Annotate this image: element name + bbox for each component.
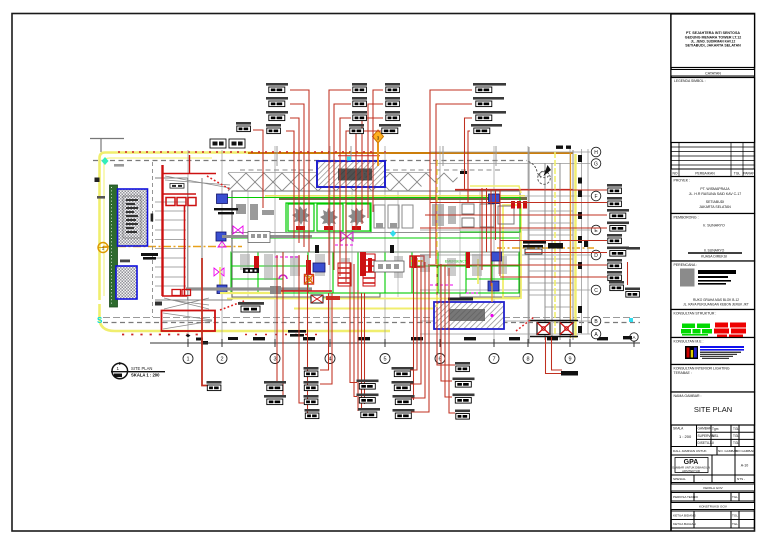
svg-text:KONSTRUKSI GOV: KONSTRUKSI GOV [699,505,728,509]
svg-text:DALL JAMINAN UNTUK: DALL JAMINAN UNTUK [673,449,708,453]
bottom right pair leaders [546,337,563,374]
red works bottom-left [172,290,191,296]
grid row D [420,254,590,256]
bottom a2 [264,395,286,405]
yellow dashed vertical [436,160,438,307]
bottom e2 [453,378,475,388]
top label c4r3 [473,111,495,121]
top label c1r3 [266,111,288,121]
canopy diamond row [228,182,422,191]
red line under orange [338,155,380,157]
extra verticals / rails [97,160,492,307]
left hatched box upper [118,189,148,246]
red dotted diagonal top [207,176,231,190]
svg-text:TGL: TGL [733,434,739,438]
top col3 leaders [373,90,383,212]
bubble B [591,316,601,326]
AM smudge left [97,196,105,199]
road sign T symbol top-left [90,139,124,153]
grid line 8 [527,146,529,343]
top col1 leaders [290,90,309,252]
grid bubble 6 [435,354,445,364]
svg-text:TGL: TGL [734,172,741,176]
top label c3r4 [379,124,401,134]
gray canopy wedge lines [165,176,230,188]
grid bubble A right end [630,333,638,341]
dimension value smudges [196,337,608,341]
gray pump symbols [292,206,366,227]
svg-text:9: 9 [568,357,571,363]
KM smudge [120,260,130,263]
gray conduit low [186,287,312,290]
planting strip dots [111,187,113,305]
conduit valve magenta [341,232,353,241]
top label c4r1 [473,83,495,93]
black tick on property line [151,214,154,222]
skala table [671,425,755,447]
svg-text:MSL: MSL [712,434,719,438]
bottom a1 [264,381,286,391]
red secondary wall vertical [184,206,186,296]
bottom d1 [392,367,414,377]
dim smudges extra [228,337,238,340]
yellow inner road bottom [294,308,434,310]
title block left border [670,14,672,531]
struktur red logo [714,323,746,338]
grid bubble 9 [565,354,575,364]
olive top wall band [279,197,527,200]
svg-text:KUASA DIREKSI: KUASA DIREKSI [701,255,727,259]
svg-text:-: - [702,477,703,481]
gambar header row [671,447,755,456]
svg-text:TGL: TGL [732,522,738,526]
svg-text:S: S [97,316,103,325]
svg-text:KONSULTAN STRUKTUR :: KONSULTAN STRUKTUR : [674,312,717,316]
gray dashed centerline top [93,160,527,162]
feram leader [253,130,263,208]
bubble C [591,285,601,295]
company header box [671,14,755,68]
orange dash-dot right center [497,247,594,249]
magenta dash right [466,292,478,294]
ramp converging gray lines [163,298,212,329]
revision table [671,143,755,177]
svg-text:NTS -: NTS - [737,477,745,481]
ME logo square [685,346,698,359]
yellow road edge bottom [100,304,391,331]
right label r1 [607,184,622,194]
striped shafts [338,254,375,286]
svg-text:H: H [594,150,598,156]
svg-text:D: D [594,253,598,259]
bottom e3 [453,394,475,404]
grid row E [420,229,590,231]
cyan diamond top-left [102,157,109,165]
bottom c2 [357,394,379,404]
right wing fixtures [462,204,514,227]
yellow canopy bottom line [265,195,525,197]
magenta fittings [214,226,455,285]
canopy top line [228,172,430,174]
svg-text:PERENCANA :: PERENCANA : [674,263,698,267]
canopy top labels [210,139,245,148]
red fixtures lower [254,252,470,276]
15M label [170,184,184,189]
bubble D [591,250,601,260]
yellow road inner line [104,158,212,296]
yellow bend top-right [470,186,521,193]
TLT black text [141,253,158,260]
top label c3r3 [385,111,400,121]
grid bubble 8 [523,354,533,364]
svg-text:JAKARTA SELATAN: JAKARTA SELATAN [699,205,731,209]
svg-text:Tgm: Tgm [712,427,719,431]
svg-text:TGL: TGL [732,495,738,499]
green upper room block [286,203,371,233]
grid bubble 3 [270,354,280,364]
svg-text:SKALA: SKALA [673,427,684,431]
dimension ticks [188,339,634,347]
grid bubble 7 [489,354,499,364]
svg-text:KETUA BIDANG: KETUA BIDANG [673,514,696,518]
right label r8 [607,271,622,281]
svg-text:SITE PLAN: SITE PLAN [131,366,152,371]
red canopy works top-left [162,155,216,206]
svg-text:SETIABUDI, JAKARTA SELATAN: SETIABUDI, JAKARTA SELATAN [685,43,741,47]
top label c4r4 [471,124,493,134]
svg-text:A: A [632,335,635,340]
gray wall blobs upper row [236,204,456,226]
bubble F [591,191,601,201]
orange dash-dot left [103,246,242,248]
bottom single leader [202,258,207,386]
yellow stair shaft outline [503,205,521,298]
red SITE text smudge [326,296,340,300]
main building outer wall [232,191,520,297]
outer gray verticals right [581,149,583,334]
konsultan ME section [671,338,755,365]
right label r3 [607,209,629,219]
top center hatched canopy [317,161,385,187]
cyan dot right [390,230,396,237]
right label r6 [607,247,629,257]
top label c2r2 [352,97,367,107]
small dark blob left ramp [155,302,162,306]
property dashed vertical [152,162,154,317]
yellow vertical right rooms [477,259,479,284]
svg-text:SETIABUDI: SETIABUDI [706,200,725,204]
svg-text:3: 3 [273,357,276,363]
svg-text:TGL: TGL [733,441,739,445]
black tick small on road [201,341,208,345]
grid line 3 [274,146,276,343]
bottom d4 [393,409,415,419]
black diamond on yellow [186,334,191,337]
svg-text:1: 1 [186,357,189,363]
svg-text:5: 5 [383,357,386,363]
black tick bars near letter column [460,146,588,334]
right label r9 [609,281,624,291]
top label c3r2 [385,97,400,107]
gray door arcs lower [240,254,507,280]
top label c2r3 [352,111,367,121]
top label c1r4 [266,124,281,134]
bubble E [591,225,601,235]
bottom b2 [304,381,319,391]
svg-text:PROYEK :: PROYEK : [674,179,691,183]
grid row F [420,195,590,197]
svg-text:7: 7 [492,357,495,363]
gray thick conduit [222,235,312,238]
periksa teknik row [671,493,755,502]
right label r4 [607,222,629,232]
grid line 5 [384,146,386,343]
top col4 leaders [430,90,472,258]
black bar right center [548,243,563,249]
bottom b1 [304,367,319,377]
svg-text:ARSITEKTUR: ARSITEKTUR [682,469,700,473]
grid line 9 [569,148,571,343]
orange vertical rail [570,153,572,338]
top col2 leaders [329,90,351,265]
gray block door [270,286,281,294]
bottom c3 [358,408,380,418]
bottom b4 [305,409,320,419]
svg-text:1 : 200: 1 : 200 [679,434,692,439]
svg-text:PARAF: PARAF [743,172,754,176]
svg-text:KETUA BAGIAN: KETUA BAGIAN [673,522,696,526]
right row leaders [455,189,607,191]
yellow vertical rail [554,152,556,336]
corridor gray walls [231,233,519,253]
top label c2r4 [349,124,364,134]
red dotted diagonal bottom-left [220,301,244,310]
bottom clusterA leaders [276,255,278,383]
grid line 1 [187,150,189,343]
svg-text:C: C [594,288,598,294]
left green planting strip [110,185,118,307]
red dots on bottom road [122,334,200,336]
legenda simbol box [671,78,755,143]
svg-text:LEGENDA SIMBOL :: LEGENDA SIMBOL : [674,79,706,83]
grid bubble 2 [217,354,227,364]
top label c4r2 [473,97,495,107]
magenta omega [279,275,287,279]
grid line 6 [439,146,441,343]
bottom b3 [304,395,319,405]
svg-text:CATATAN: CATATAN [705,72,721,76]
red pump bases [296,226,361,230]
yellow interior line [220,292,283,294]
ramp rungs [529,211,573,307]
svg-text:KEPALA GOV: KEPALA GOV [703,486,723,490]
gray dashed centerline bottom [103,322,640,324]
vertical gray line at 529 [528,147,530,343]
ketua gov row [671,484,755,491]
bottom single label [207,381,222,391]
perencana logo black text [698,270,736,285]
top label c3r1 [385,83,400,93]
dimension line [150,342,640,344]
orange vertical stub [491,283,493,302]
yellow circle bubble left road [98,243,108,253]
small X box building bottom [311,295,323,303]
svg-text:2: 2 [220,357,223,363]
svg-text:G: G [594,162,598,168]
svg-text:SPESIAL: SPESIAL [673,477,686,481]
svg-text:PERBAIKAN: PERBAIKAN [695,172,715,176]
svg-text:A-10: A-10 [741,464,749,468]
pemborong section [671,214,755,262]
ATL MASF text block [523,241,546,254]
grid line 7 [493,146,495,343]
proyek section [671,177,755,214]
svg-text:PT. SEJAHTERA INTI SENTOSA: PT. SEJAHTERA INTI SENTOSA [686,31,740,35]
right label r7 [607,259,622,269]
yellow vertical segment [219,267,221,287]
grid line 4 [329,146,331,343]
blue node squares [216,194,502,291]
bottom e4 [455,410,470,420]
interior column grid verticals [248,191,480,297]
bottom right X-boxes [530,321,578,337]
gray 45M text [114,164,124,167]
svg-text:NO: NO [672,172,677,176]
grid bubble 1 [183,333,638,364]
svg-text:F: F [594,194,597,200]
konsultan struktur section [671,310,755,338]
bottom clusterC leaders [350,262,357,383]
yellow road edge top [100,153,253,301]
svg-text:SKALA 1 : 200: SKALA 1 : 200 [131,373,160,378]
red interior horizontal [278,290,332,292]
red dotted diagonal bottom right [516,317,534,331]
struktur green logo [681,324,712,336]
col4 wide text extensions [493,83,506,127]
small panel box [374,261,404,272]
red dots on top road [118,151,390,153]
konsultan interior section [671,365,755,393]
right label r2 [607,197,622,207]
interior black tag [243,268,259,273]
grid line 2 [221,150,223,343]
cyan dot center [347,157,351,161]
bottom clusterE leaders [437,262,455,365]
left hatched box lower [116,266,137,299]
perencana section [671,261,755,310]
grid row A [420,333,590,335]
spesial row [671,475,755,483]
top-right red line [455,189,573,191]
red ramp box bottom-left [162,296,216,331]
parking stall lines [155,202,186,286]
bottom center hatched box [434,302,504,329]
perencana logo gray square [680,269,695,287]
top label c1r2 [266,97,288,107]
svg-text:NAMA GAMBAR :: NAMA GAMBAR : [674,394,702,398]
small gray box abc [248,232,270,243]
svg-text:KONSULTAN INTERIOR LIGHTING: KONSULTAN INTERIOR LIGHTING [674,367,730,371]
bottom d2 [392,381,414,391]
catatan row [671,70,755,77]
svg-text:KONSULTAN M.E :: KONSULTAN M.E : [674,340,704,344]
bottom right black bar label [561,371,578,376]
grid bubble 5 [380,354,390,364]
svg-text:PERIKSA TEKNIK: PERIKSA TEKNIK [673,495,699,499]
left building walls [155,178,232,300]
DE ADA text block [288,330,306,337]
right label r5 [607,234,622,244]
wide right label text r6 [626,247,640,250]
ketua bagian row [671,520,755,529]
svg-text:TGL: TGL [733,427,739,431]
svg-text:RUKO GRAHA MAS BLOK B-12: RUKO GRAHA MAS BLOK B-12 [693,298,739,302]
bottom c1 [357,380,379,390]
nama gambar section [671,392,755,425]
svg-text:GAMBAR: GAMBAR [698,427,713,431]
green right wing [460,198,520,233]
svg-text:TERABAE :: TERABAE : [674,371,692,375]
ME blue bar text [700,346,744,348]
svg-text:JL. H.R RASUNA SAID KAV C-17: JL. H.R RASUNA SAID KAV C-17 [689,192,742,196]
black tick on yellow left [95,178,100,183]
orange main utility line top [248,152,573,154]
svg-text:SITE PLAN: SITE PLAN [694,405,732,414]
grid row B [420,320,590,322]
svg-text:8: 8 [526,357,529,363]
PELE BECT label [238,302,264,312]
red main wall vertical thick [161,165,163,296]
canopy diamond row lower [228,173,458,182]
right grid letter bubbles [591,147,601,339]
far right label [625,288,640,298]
red cells right room [511,201,527,209]
corridor black ticks [315,245,319,253]
orange diamond marker top [373,130,384,166]
top label FERAM [236,122,251,132]
bubble G [591,159,601,169]
bubble H [591,147,601,157]
red box with yellow marks [410,256,424,267]
red risers right wing [481,188,483,270]
gpa row [671,455,755,475]
green lower rooms [231,238,519,293]
gray dashed second line [240,169,500,171]
yellow outer vertical [574,154,576,338]
svg-text:PEMBORONG :: PEMBORONG : [674,216,699,220]
top label c2r1 [352,83,367,93]
top label c1r1 [266,83,288,93]
bottom clusterB leaders [320,293,329,370]
BW UNION text [214,208,238,214]
svg-text:Ir. SUNARYO: Ir. SUNARYO [704,249,725,253]
svg-text:TGL: TGL [732,514,738,518]
cyan dot mid right [629,318,633,322]
svg-text:Ir. SUNARYO: Ir. SUNARYO [703,224,725,228]
bottom d3 [393,395,415,405]
svg-text:PT. WISMAPRAJA: PT. WISMAPRAJA [700,187,730,191]
label above bottom box [448,298,473,301]
svg-text:JL. RAYA PERJUANGAN KEBON JERU: JL. RAYA PERJUANGAN KEBON JERUK JKT [683,303,749,307]
red dots bottom road 2 [245,334,320,336]
bottom clusterD leaders [413,256,415,400]
svg-text:DISETUJUI: DISETUJUI [698,441,715,445]
blue node low-left [217,285,227,294]
bubble A [591,329,601,339]
orange X box [305,275,314,285]
far right short leader [627,262,629,285]
grid row G [430,163,590,165]
